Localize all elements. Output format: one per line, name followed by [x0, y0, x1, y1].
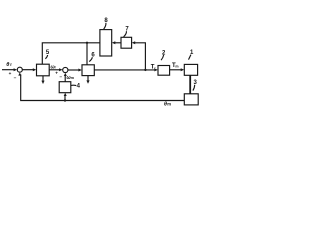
svg-text:+: + — [55, 71, 58, 76]
svg-text:r: r — [10, 62, 12, 67]
svg-text:θ: θ — [6, 62, 9, 68]
svg-text:8: 8 — [104, 18, 108, 24]
svg-text:1: 1 — [190, 50, 194, 56]
svg-text:m: m — [167, 102, 171, 107]
svg-text:m: m — [175, 64, 178, 68]
svg-text:2: 2 — [162, 50, 166, 56]
svg-text:r: r — [55, 66, 57, 70]
svg-text:7: 7 — [125, 27, 129, 33]
svg-text:5: 5 — [46, 50, 50, 56]
svg-text:+: + — [9, 71, 12, 76]
svg-text:4: 4 — [77, 84, 81, 90]
svg-text:m: m — [71, 76, 75, 80]
svg-text:6: 6 — [91, 53, 95, 59]
svg-text:−: − — [59, 75, 62, 80]
svg-text:3: 3 — [194, 80, 198, 86]
svg-text:−: − — [14, 76, 17, 81]
